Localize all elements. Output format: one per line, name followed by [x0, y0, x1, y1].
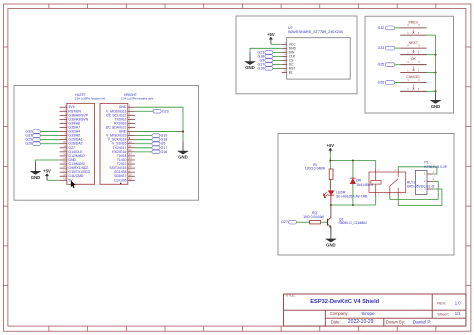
wire HRIGHT pin 2 to net G23: [135, 110, 153, 112]
wire collector node to diode bottom: [331, 204, 353, 206]
wire net G23 to U7 pin 3: [273, 51, 282, 53]
wire HRIGHT pin 9 to net G18: [135, 139, 152, 141]
region box headers: [14, 86, 199, 201]
svg-text:OK: OK: [411, 57, 417, 61]
svg-text:GND: GND: [431, 104, 441, 109]
net label G18 U7: [257, 54, 272, 58]
wire net G5 to U7 pin 5: [273, 59, 282, 61]
svg-text:1/1: 1/1: [455, 311, 461, 316]
svg-text:GND: GND: [326, 243, 336, 248]
mouse cursor: [71, 180, 76, 188]
net label G33: [25, 134, 40, 138]
junction gnd bus 3: [435, 90, 437, 92]
svg-text:1.0: 1.0: [455, 300, 461, 305]
svg-text:Drawn By:: Drawn By:: [386, 319, 405, 324]
net label G17 U7: [257, 62, 272, 66]
net label G27: [281, 220, 296, 224]
svg-text:+5V: +5V: [327, 143, 335, 148]
svg-text:G27: G27: [281, 220, 288, 224]
wire net G32 to switch: [395, 27, 400, 29]
svg-text:G26: G26: [25, 142, 32, 146]
ground symbol buttons: [430, 93, 440, 109]
wire LEDR to collector node: [330, 195, 332, 218]
net label G33 button: [378, 46, 395, 50]
wire diode bottom to relay coil 2: [353, 196, 376, 205]
wire HRIGHT pin 8 to net G19: [135, 135, 152, 137]
diode DR 1N4148WS: [350, 178, 374, 205]
wire HRIGHT pin 10 to net G5: [135, 143, 152, 145]
svg-text:TITLE:: TITLE:: [285, 294, 295, 298]
svg-text:BL: BL: [289, 70, 293, 74]
led LEDR BL-HGE35A-AV-TRB: [323, 190, 368, 198]
junction diode top: [352, 160, 354, 162]
wire HRIGHT pin 1 GND to ground bus: [135, 107, 183, 142]
svg-text:Company:: Company:: [330, 311, 349, 316]
wire net G25 to switch: [395, 64, 400, 66]
svg-text:+5V: +5V: [267, 32, 275, 37]
header HRIGHT 1x19 pin header right: [100, 93, 153, 184]
net label G23 U7: [257, 50, 272, 54]
title block Drawn By: [386, 319, 431, 324]
wire HLEFT pin 14 GND to ground: [36, 160, 60, 163]
power +5V to U7 VCC: [267, 32, 282, 44]
svg-text:WAVESHARE_ST7789_240X240: WAVESHARE_ST7789_240X240: [288, 30, 343, 34]
relay pin 4 stub NC: [395, 169, 399, 172]
net label G26 button: [378, 81, 395, 85]
relay pin 2 stub: [376, 193, 380, 197]
svg-text:GND: GND: [245, 65, 255, 70]
net label G19: [152, 134, 167, 138]
svg-text:G25: G25: [378, 63, 385, 67]
power +5V led circuit: [327, 143, 335, 160]
title block: [284, 294, 466, 326]
switch S1 PREV: [400, 20, 426, 35]
op module U7 WAVESHARE_ST7789_240X240: [282, 26, 351, 79]
svg-text:ESP32-DevKitC V4 Shield: ESP32-DevKitC V4 Shield: [310, 299, 379, 305]
svg-text:2022-10-29: 2022-10-29: [348, 319, 374, 325]
resistor RQ 1K: [303, 211, 324, 224]
region box display: [236, 16, 357, 94]
ground symbol Q1: [326, 231, 336, 247]
connector P1 KF301V-5.0-3P: [415, 161, 447, 195]
junction gnd bus 1: [435, 54, 437, 56]
wire net G33 to HLEFT pin 8: [40, 135, 59, 137]
title block REV: [437, 300, 461, 305]
power +5V to HLEFT pin 19: [43, 169, 59, 181]
wire +5V node to RL: [329, 161, 331, 170]
svg-text:Sheet:: Sheet:: [437, 311, 449, 316]
svg-text:2.54 1x19Pin headers left: 2.54 1x19Pin headers left: [75, 97, 106, 101]
svg-text:120Ω 0.048W: 120Ω 0.048W: [305, 167, 326, 171]
wire net G18 to U7 pin 4: [273, 55, 282, 57]
switch S4 CANCEL: [400, 75, 426, 91]
svg-text:1KΩ 0.0044W: 1KΩ 0.0044W: [303, 215, 324, 219]
net label G32: [25, 130, 40, 134]
wire diode top lead: [352, 161, 354, 179]
svg-text:SRD-05VDC-SL-C: SRD-05VDC-SL-C: [407, 185, 435, 189]
net label G5 U7: [259, 58, 272, 62]
net label G5: [152, 142, 165, 146]
wire button ground bus: [435, 35, 437, 93]
svg-text:G16: G16: [257, 66, 264, 70]
ground symbol right of HRIGHT: [178, 142, 188, 160]
svg-text:GND: GND: [178, 155, 188, 160]
junction collector node: [330, 204, 332, 206]
wire +5V node to relay coil: [330, 161, 375, 169]
net label G23 right: [153, 109, 169, 113]
svg-text:CLK/G6: CLK/G6: [114, 178, 126, 182]
svg-text:KF301V-5.0-3P: KF301V-5.0-3P: [424, 165, 447, 169]
title block TITLE label: [285, 294, 295, 298]
transistor Q1 S8050: [328, 218, 368, 228]
relay pin 3 stub COM: [386, 193, 389, 197]
svg-text:Sirope: Sirope: [361, 311, 375, 316]
wire relay NC to P1 pin 1: [398, 167, 437, 174]
resistor RL 120ohm: [305, 163, 333, 179]
svg-text:G23: G23: [162, 109, 169, 113]
wire HRIGHT pin 11 to net G17: [135, 147, 152, 149]
wire U7 GND to ground: [250, 48, 282, 53]
svg-text:Date:: Date:: [331, 319, 341, 324]
region box buttons: [365, 16, 454, 113]
wire HRIGHT pin 12 to net G16: [135, 151, 152, 153]
wire switch OK to gnd bus: [427, 72, 436, 74]
ground symbol left of HLEFT: [30, 162, 40, 180]
net label G16 U7: [257, 66, 272, 70]
svg-text:HRIGHT: HRIGHT: [124, 93, 137, 97]
svg-text:Daniel P.: Daniel P.: [413, 319, 431, 324]
wire relay COM to P1 pin 2: [390, 181, 438, 199]
wire net G25 to HLEFT pin 9: [40, 139, 59, 141]
region box led relay: [278, 134, 454, 256]
net label G25 button: [378, 63, 395, 67]
junction gnd bus 2: [435, 72, 437, 74]
relay pin 1 stub: [376, 168, 380, 172]
title block Company: [330, 311, 375, 316]
switch S3 OK: [400, 57, 426, 73]
svg-text:+5V: +5V: [43, 169, 51, 174]
wire RQ to Q1 base: [321, 221, 328, 223]
net label G18: [152, 138, 167, 142]
wire RL to LEDR: [329, 180, 331, 191]
wire net G16 to U7 pin 7: [273, 67, 282, 69]
wire net G26 to HLEFT pin 10: [40, 143, 59, 145]
ground symbol U7: [245, 53, 255, 70]
wire net G17 to U7 pin 6: [273, 63, 282, 65]
net label G25: [25, 138, 40, 142]
wire net G32 to HLEFT pin 7: [40, 131, 59, 133]
wire switch PREV to gnd bus: [427, 34, 436, 36]
wire relay NO to P1 pin 3: [398, 189, 442, 205]
svg-text:BL-HGE35A-AV-TRB: BL-HGE35A-AV-TRB: [336, 195, 368, 199]
net label G26: [25, 142, 40, 146]
title block Date: [331, 319, 374, 325]
svg-text:REV:: REV:: [437, 301, 446, 306]
svg-text:S8050-G_C164862: S8050-G_C164862: [339, 221, 368, 225]
header HLEFT 1x19 pin header left: [60, 93, 106, 184]
svg-text:G32: G32: [378, 26, 385, 30]
relay pin 5 stub NO: [398, 193, 402, 197]
svg-text:G26: G26: [378, 81, 385, 85]
wire Q1 emitter to ground: [330, 227, 332, 231]
wire net G33 to switch: [395, 47, 400, 49]
svg-text:G33: G33: [378, 46, 385, 50]
junction +5V node: [329, 160, 331, 162]
wire HRIGHT pin 7 GND to ground bus: [135, 131, 183, 133]
relay RLY1 SRD-05VDC-SL-C: [369, 172, 435, 193]
wire net G26 to switch: [395, 82, 400, 84]
svg-text:2.54 1x19Pin headers right: 2.54 1x19Pin headers right: [121, 97, 153, 101]
net label G17: [152, 146, 167, 150]
wire G27 to RQ: [297, 221, 310, 223]
svg-text:5V: 5V: [68, 178, 73, 182]
net label G32 button: [378, 26, 395, 30]
junction GND bus: [182, 131, 184, 133]
wire switch NEXT to gnd bus: [427, 54, 436, 56]
switch S2 NEXT: [400, 41, 426, 55]
wire switch CANCEL to gnd bus: [427, 90, 436, 92]
svg-text:GND: GND: [31, 175, 41, 180]
junction diode bottom: [352, 204, 354, 206]
svg-text:G16: G16: [161, 150, 168, 154]
title block Sheet: [437, 311, 461, 316]
title text ESP32-DevKitC V4 Shield: [310, 299, 379, 305]
svg-text:HLEFT: HLEFT: [75, 93, 86, 97]
net label G16: [152, 150, 167, 154]
